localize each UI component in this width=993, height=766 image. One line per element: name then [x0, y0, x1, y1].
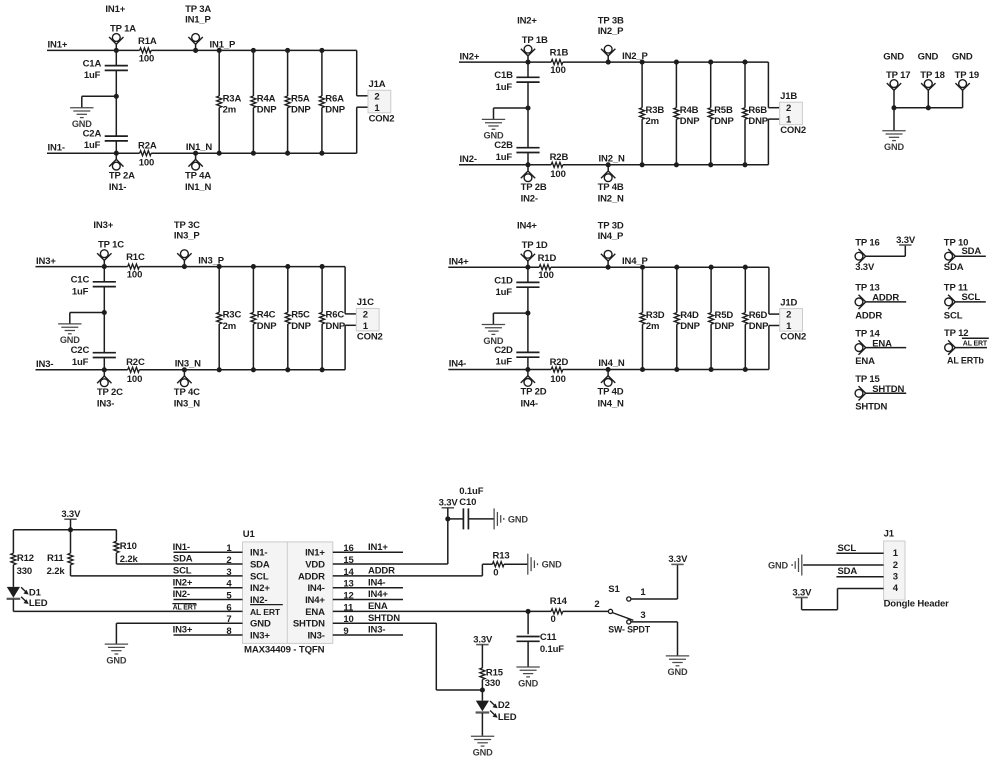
svg-text:SDA: SDA [173, 554, 193, 565]
svg-text:VDD: VDD [305, 559, 325, 570]
wire IN3- bottom rail [36, 369, 346, 371]
resistor R6B [742, 105, 768, 127]
IC U1 MAX34409 [243, 529, 333, 656]
svg-text:SDA: SDA [962, 246, 982, 257]
ground [882, 131, 905, 152]
svg-text:1uF: 1uF [496, 357, 513, 368]
resistor R13 [482, 550, 527, 578]
wire IN2+ top rail [459, 61, 768, 63]
wire TP1C column [102, 267, 107, 370]
svg-text:GND: GND [918, 52, 939, 63]
svg-text:Dongle Header: Dongle Header [884, 598, 950, 609]
svg-text:TP 2B: TP 2B [521, 182, 547, 193]
test point TP16 [855, 238, 880, 273]
wire pin 7 GND [116, 623, 242, 644]
pin name IN4- [307, 583, 324, 594]
pin number 8 [226, 626, 231, 637]
svg-text:J1A: J1A [369, 79, 386, 90]
svg-text:C2D: C2D [494, 345, 513, 356]
svg-text:IN4+: IN4+ [449, 257, 469, 268]
svg-text:TP 17: TP 17 [886, 70, 910, 81]
svg-text:GND: GND [952, 52, 973, 63]
test point TP 18 [918, 52, 945, 108]
svg-text:R6D: R6D [749, 310, 768, 321]
ground [482, 325, 505, 346]
wire VDD pin 15 [333, 516, 451, 564]
wire J1 pin 3 SDA [836, 566, 883, 577]
svg-text:1uF: 1uF [496, 287, 513, 298]
power 3.3V [473, 634, 493, 645]
svg-text:DNP: DNP [291, 105, 311, 116]
svg-text:IN1+: IN1+ [105, 4, 125, 15]
svg-text:IN2_N: IN2_N [599, 153, 625, 164]
svg-text:R3D: R3D [646, 310, 665, 321]
wire to ground [493, 313, 528, 324]
wire column R5A [285, 48, 290, 156]
svg-text:ADDR: ADDR [855, 310, 882, 321]
svg-text:R14: R14 [550, 596, 568, 607]
svg-text:IN3+: IN3+ [250, 630, 270, 641]
svg-text:0.1uF: 0.1uF [540, 644, 564, 655]
svg-text:TP 4C: TP 4C [174, 387, 200, 398]
wire J1 pin 4 to 3.3V [802, 589, 884, 610]
resistor R2A [138, 141, 157, 169]
svg-text:TP 16: TP 16 [855, 238, 879, 249]
svg-text:AL ERTb: AL ERTb [947, 355, 984, 365]
svg-text:S1: S1 [608, 584, 620, 595]
svg-text:DNP: DNP [325, 105, 345, 116]
svg-text:GND: GND [72, 119, 92, 129]
svg-text:IN1+: IN1+ [48, 40, 68, 51]
svg-text:CON2: CON2 [369, 113, 395, 124]
svg-text:100: 100 [127, 374, 142, 385]
resistor R1B [550, 48, 569, 76]
svg-text:R6C: R6C [326, 310, 345, 321]
pin number 16 [343, 543, 353, 554]
svg-text:DNP: DNP [680, 321, 700, 332]
pin name IN2- [250, 595, 267, 606]
connector J1B [780, 91, 806, 136]
test point TP11 [944, 283, 969, 322]
svg-text:SCL: SCL [944, 310, 963, 321]
ground [471, 736, 494, 757]
svg-text:R5C: R5C [291, 310, 310, 321]
svg-text:LED: LED [29, 598, 48, 609]
svg-text:MAX34409 - TQFN: MAX34409 - TQFN [244, 645, 325, 656]
svg-text:J1B: J1B [780, 91, 797, 102]
svg-text:C1C: C1C [71, 275, 90, 286]
wire pin 9 IN3- [333, 625, 403, 636]
svg-text:R5B: R5B [714, 105, 733, 116]
svg-text:100: 100 [139, 53, 154, 64]
svg-text:CON2: CON2 [357, 331, 383, 342]
svg-text:TP 1D: TP 1D [522, 240, 548, 251]
svg-text:R2D: R2D [550, 357, 569, 368]
wire pin 16 IN1+ [333, 542, 403, 553]
svg-text:GND: GND [668, 667, 688, 677]
svg-text:IN2-: IN2- [521, 194, 538, 205]
wire column R3B [640, 60, 645, 168]
pin name ENA [305, 607, 325, 618]
capacitor C2B [494, 140, 539, 163]
svg-text:ENA: ENA [855, 356, 875, 367]
svg-text:R10: R10 [120, 541, 137, 552]
power 3.3V [896, 235, 916, 246]
svg-text:IN4-: IN4- [307, 583, 324, 594]
svg-text:SHTDN: SHTDN [368, 613, 400, 624]
ground [666, 656, 689, 677]
wire 3.3V rail [13, 527, 116, 532]
wire pin 3 SCL [71, 565, 243, 577]
resistor R10 [114, 530, 139, 565]
svg-text:IN3+: IN3+ [173, 625, 193, 636]
svg-text:J1: J1 [884, 529, 895, 540]
resistor R2C [126, 357, 145, 385]
svg-text:C11: C11 [540, 632, 557, 643]
wire TP1D column [525, 267, 530, 369]
wire column R6B [742, 60, 747, 168]
svg-text:ENA: ENA [368, 601, 388, 612]
capacitor C2D [494, 345, 539, 368]
wire to J1B pin 1 [768, 119, 779, 165]
svg-text:1: 1 [786, 115, 792, 126]
svg-text:SCL: SCL [838, 543, 857, 554]
svg-text:GND: GND [768, 560, 788, 570]
wire net SCL [955, 292, 986, 303]
net label IN3_P [198, 256, 224, 267]
pin number 9 [343, 626, 348, 637]
wire pin 8 IN3+ [173, 625, 243, 636]
net label IN4+ [449, 257, 469, 268]
svg-text:TP 3A: TP 3A [185, 4, 211, 15]
svg-text:SHTDN: SHTDN [293, 619, 325, 630]
pin name IN1- [250, 548, 267, 559]
resistor R1C [126, 252, 145, 280]
svg-text:R2C: R2C [126, 357, 145, 368]
svg-text:TP 18: TP 18 [920, 70, 944, 81]
wire net ENA pin 11 [333, 601, 609, 614]
wire IN1- bottom rail [47, 152, 357, 154]
svg-text:SDA: SDA [944, 262, 964, 273]
wire IN4- bottom rail [448, 369, 769, 371]
pin name IN1+ [305, 548, 325, 559]
resistor R4C [251, 310, 277, 332]
svg-text:IN1-: IN1- [109, 182, 126, 193]
wire net SHTDN [866, 384, 907, 395]
svg-text:0.1uF: 0.1uF [459, 486, 483, 497]
svg-text:TP 3C: TP 3C [174, 220, 200, 231]
svg-text:R5A: R5A [291, 93, 310, 104]
svg-text:GND: GND [508, 514, 528, 524]
svg-text:2: 2 [893, 560, 898, 571]
ground [105, 644, 128, 665]
wire to J1C pin 2 [345, 267, 356, 314]
wire pin 2 SDA [116, 553, 242, 565]
svg-text:R2B: R2B [550, 152, 569, 163]
svg-text:IN4-: IN4- [368, 577, 385, 588]
svg-text:TP 1B: TP 1B [522, 35, 548, 46]
wire column R4D [674, 265, 679, 372]
resistor R6C [320, 310, 346, 332]
svg-text:1uF: 1uF [84, 70, 101, 81]
net label IN2+ [460, 51, 480, 62]
test point TP2C [97, 367, 123, 409]
svg-text:330: 330 [17, 566, 32, 577]
svg-text:DNP: DNP [748, 116, 768, 127]
LED D1 [7, 587, 48, 612]
pin number 15 [343, 555, 354, 566]
pin name AL ERT [250, 605, 283, 617]
svg-text:IN4-: IN4- [449, 359, 466, 370]
svg-text:2: 2 [374, 91, 379, 102]
pin number 3 [226, 567, 231, 578]
wire to J1A pin 1 [357, 107, 368, 153]
svg-text:1uF: 1uF [84, 140, 101, 151]
svg-text:IN3_N: IN3_N [175, 358, 201, 369]
svg-text:D2: D2 [498, 700, 510, 711]
svg-text:TP 12: TP 12 [944, 328, 968, 339]
svg-text:IN1+: IN1+ [368, 542, 388, 553]
wire to J1C pin 1 [345, 325, 356, 370]
svg-text:IN3-: IN3- [307, 630, 324, 641]
ground [70, 108, 93, 129]
wire to J1A pin 2 [357, 50, 368, 95]
wire to ground [82, 96, 117, 107]
svg-text:TP 4B: TP 4B [598, 182, 624, 193]
svg-text:IN2+: IN2+ [250, 583, 270, 594]
wire S1 pin 3 to ground [631, 622, 678, 656]
pin name VDD [305, 559, 325, 570]
svg-text:CON2: CON2 [780, 332, 806, 343]
connector J1 [884, 529, 950, 610]
test point TP2D [521, 367, 547, 409]
svg-text:U1: U1 [243, 529, 256, 540]
svg-text:TP 2C: TP 2C [97, 387, 123, 398]
svg-text:100: 100 [550, 65, 565, 76]
svg-text:IN2+: IN2+ [517, 16, 537, 27]
svg-text:J1C: J1C [357, 297, 374, 308]
svg-text:IN2-: IN2- [460, 154, 477, 165]
wire net ALERT [955, 338, 989, 347]
svg-text:0: 0 [493, 568, 498, 579]
svg-text:3.3V: 3.3V [473, 634, 493, 645]
resistor R14 [550, 596, 568, 625]
test point TP13 [855, 283, 882, 322]
wire net SDA [955, 246, 986, 257]
svg-text:GND: GND [250, 619, 271, 630]
svg-text:DNP: DNP [257, 321, 277, 332]
svg-text:2: 2 [594, 599, 599, 610]
svg-text:R13: R13 [493, 550, 510, 561]
wire to ground [494, 108, 529, 119]
pin number 5 [226, 591, 232, 602]
wire column R6C [320, 264, 325, 372]
svg-text:C10: C10 [459, 497, 476, 508]
power 3.3V [668, 554, 688, 565]
test point TP4A [185, 151, 211, 193]
test point TP1A [105, 4, 136, 53]
wire TP16 to 3.3V [866, 245, 906, 256]
ground [494, 508, 528, 529]
test point TP2B [521, 162, 547, 204]
svg-text:IN4+: IN4+ [305, 595, 325, 606]
capacitor C1A [83, 59, 128, 82]
wire to J1D pin 1 [769, 326, 780, 370]
resistor R2B [550, 152, 569, 180]
test point TP3C [174, 220, 200, 269]
wire IN2- bottom rail [459, 164, 768, 166]
svg-text:100: 100 [550, 169, 565, 180]
net label IN1+ [48, 40, 68, 51]
switch S1 SW-SPDT [594, 584, 650, 634]
pin name SCL [250, 571, 269, 582]
wire IN1+ top rail [47, 49, 357, 51]
svg-text:1: 1 [363, 321, 369, 332]
svg-text:C1D: C1D [494, 275, 513, 286]
svg-text:ADDR: ADDR [368, 566, 395, 577]
wire column R5C [285, 264, 290, 372]
svg-text:R1B: R1B [550, 48, 569, 59]
svg-text:3: 3 [893, 572, 898, 583]
svg-text:AL ERT: AL ERT [173, 605, 198, 612]
svg-text:SCL: SCL [173, 566, 192, 577]
wire J1 pin 2 GND [803, 564, 884, 566]
ground [516, 667, 539, 688]
svg-text:C1B: C1B [494, 70, 513, 81]
svg-text:IN2_P: IN2_P [598, 26, 624, 37]
svg-text:IN2+: IN2+ [460, 51, 480, 62]
net label IN3- [36, 359, 53, 370]
pin number 4 [226, 579, 232, 590]
svg-text:DNP: DNP [680, 116, 700, 127]
connector J1C [356, 297, 382, 342]
svg-text:2: 2 [786, 103, 791, 114]
svg-text:2: 2 [363, 309, 368, 320]
test point TP15 [855, 374, 887, 413]
svg-text:R4C: R4C [257, 310, 276, 321]
svg-text:2m: 2m [223, 321, 236, 332]
power 3.3V [61, 509, 81, 530]
svg-text:4: 4 [893, 583, 899, 594]
power 3.3V [439, 497, 477, 519]
svg-text:3.3V: 3.3V [896, 235, 916, 246]
capacitor C11 [517, 611, 565, 666]
svg-text:IN1_N: IN1_N [186, 142, 212, 153]
svg-text:IN1-: IN1- [250, 548, 267, 559]
test point TP4B [598, 162, 624, 204]
svg-text:ENA: ENA [305, 607, 325, 618]
capacitor C2C [71, 345, 116, 368]
wire column R3D [640, 265, 645, 372]
svg-text:100: 100 [538, 270, 553, 281]
pin name IN3+ [250, 630, 270, 641]
svg-text:D1: D1 [29, 588, 42, 599]
svg-text:IN1_P: IN1_P [185, 14, 211, 25]
resistor R4B [674, 105, 700, 127]
test point TP1B [517, 16, 548, 65]
pin name GND [250, 619, 271, 630]
test point TP3A [185, 4, 211, 53]
svg-text:ADDR: ADDR [872, 293, 899, 304]
svg-text:IN2+: IN2+ [173, 577, 193, 588]
net label IN4_N [598, 358, 624, 369]
svg-text:DNP: DNP [257, 105, 277, 116]
wire column R5D [709, 265, 714, 372]
LED D2 [476, 690, 517, 736]
svg-text:R1A: R1A [138, 36, 157, 47]
svg-text:TP 2D: TP 2D [521, 387, 547, 398]
svg-text:DNP: DNP [291, 321, 311, 332]
wire net SHTDN pin 10 [333, 613, 483, 690]
svg-text:C2A: C2A [83, 129, 102, 140]
net label IN3_N [175, 358, 201, 369]
resistor R12 [11, 530, 34, 587]
wire column R4C [251, 264, 256, 372]
wire column R6A [319, 48, 324, 156]
test point TP2A [109, 151, 135, 193]
wire J1 pin 1 SCL [836, 543, 883, 554]
wire net ADDR pin 14 [333, 564, 483, 576]
svg-text:IN1-: IN1- [48, 142, 65, 153]
pin name ADDR [298, 571, 325, 582]
resistor R11 [47, 530, 73, 577]
svg-text:SHTDN: SHTDN [872, 384, 904, 395]
capacitor C1D [494, 275, 539, 298]
svg-text:IN4+: IN4+ [517, 221, 537, 232]
svg-text:C2C: C2C [71, 345, 90, 356]
svg-text:2.2k: 2.2k [120, 554, 139, 565]
resistor R4A [251, 93, 277, 115]
resistor R1D [538, 253, 557, 281]
pin number 2 [226, 555, 231, 566]
svg-text:1uF: 1uF [496, 82, 513, 93]
pin name IN3- [307, 630, 324, 641]
svg-text:GND: GND [884, 142, 904, 152]
svg-text:3.3V: 3.3V [855, 262, 875, 273]
pin number 6 [226, 602, 231, 613]
pin number 1 [226, 543, 232, 554]
net label IN1- [48, 142, 65, 153]
svg-text:3.3V: 3.3V [61, 509, 81, 520]
svg-text:1: 1 [640, 587, 646, 598]
svg-text:IN1+: IN1+ [305, 548, 325, 559]
svg-text:GND: GND [60, 335, 80, 345]
resistor R5C [285, 310, 311, 332]
svg-text:2m: 2m [646, 116, 659, 127]
svg-text:IN3-: IN3- [368, 625, 385, 636]
svg-text:R3A: R3A [223, 93, 242, 104]
svg-text:R4B: R4B [680, 105, 699, 116]
connector J1A [368, 79, 394, 124]
pin number 10 [343, 614, 353, 625]
svg-text:R3C: R3C [223, 310, 242, 321]
svg-text:100: 100 [127, 270, 142, 281]
svg-text:R1D: R1D [538, 253, 557, 264]
svg-text:GND: GND [883, 52, 904, 63]
wire pin 12 IN4+ [333, 589, 403, 600]
pin name IN2+ [250, 583, 270, 594]
capacitor C10 [448, 486, 494, 529]
power 3.3V [792, 587, 812, 598]
svg-text:R2A: R2A [138, 141, 157, 152]
test point TP 19 [952, 52, 979, 108]
resistor R6D [743, 310, 769, 332]
svg-text:R4A: R4A [257, 93, 276, 104]
svg-text:TP 4A: TP 4A [185, 170, 211, 181]
svg-text:R4D: R4D [680, 310, 699, 321]
wire to J1B pin 2 [768, 62, 779, 108]
test point TP1C [93, 220, 124, 269]
